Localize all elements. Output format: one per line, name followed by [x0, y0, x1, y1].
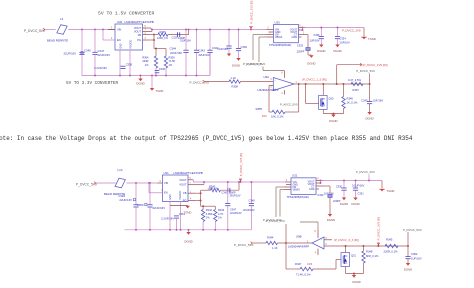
TGND cross bottom [379, 188, 384, 190]
svg-text:DGND: DGND [333, 49, 341, 53]
output cap C342 22UF/16V [209, 30, 211, 51]
wire ON tie-down [253, 34, 267, 36]
ground DGND C331 [353, 198, 357, 201]
svg-text:C330: C330 [336, 184, 343, 188]
U9B -in rail [324, 245, 345, 247]
svg-text:P_DVCC_1V5: P_DVCC_1V5 [342, 29, 361, 33]
svg-text:R306: R306 [169, 56, 176, 60]
U9B +in sense stub [324, 239, 332, 241]
svg-text:1.1K: 1.1K [231, 76, 237, 80]
U33 right pin stubs [299, 27, 306, 29]
svg-text:220R_0.1%: 220R_0.1% [384, 250, 399, 254]
capacitor C349 22UF/16V [135, 183, 137, 205]
svg-text:DGND: DGND [329, 119, 337, 123]
svg-text:(P_DVCC_1V5 [R]): (P_DVCC_1V5 [R]) [363, 63, 388, 67]
svg-text:1UF/16V: 1UF/16V [309, 39, 319, 43]
ground DGND source bottom [353, 274, 355, 276]
junction feedback [285, 242, 287, 244]
ground DGND CT [309, 55, 313, 58]
svg-text:R305: R305 [160, 30, 167, 34]
U30 PGOOD pin down [129, 50, 131, 76]
output cap C344b 22UF/16V [227, 182, 229, 204]
svg-text:P_AVCC_5V0: P_AVCC_5V0 [280, 102, 298, 106]
svg-text:DGND: DGND [136, 82, 144, 86]
VOUT merge [203, 182, 205, 185]
resistor R344 1.1K [266, 241, 277, 244]
svg-text:VIN: VIN [117, 28, 121, 32]
svg-text:TGND: TGND [368, 37, 376, 41]
junction C347 tap [94, 29, 96, 31]
drain tap junction [322, 83, 324, 85]
PG wire [149, 39, 154, 41]
U9B V+ pin 8 [317, 230, 319, 238]
resistor R346 1K vertical [342, 97, 345, 109]
svg-text:PG: PG [183, 198, 187, 202]
op-amp/regulator U30 LM4360APTCE/NOPB [115, 24, 143, 50]
ground DGND below bus [140, 76, 142, 79]
svg-text:10K_0.1%: 10K_0.1% [271, 114, 284, 118]
FB network vertical [153, 35, 155, 49]
vertical net label P_DVCC_3V3 bottom [240, 179, 242, 183]
svg-text:DGND: DGND [327, 218, 335, 222]
svg-text:DGND: DGND [232, 63, 240, 67]
svg-text:Q30: Q30 [329, 96, 334, 100]
svg-text:P_DVCC_5V0: P_DVCC_5V0 [234, 243, 254, 247]
svg-text:100R_1%: 100R_1% [157, 37, 169, 40]
svg-text:L10: L10 [118, 168, 123, 172]
capacitor C340 22UF/16V [81, 30, 83, 53]
svg-text:4.99K: 4.99K [206, 212, 213, 216]
divider row [154, 48, 166, 50]
svg-text:6K8_0.1%: 6K8_0.1% [366, 254, 379, 258]
U32 VOUT merge [320, 181, 322, 184]
capacitor C341 1000PF on FB row [220, 189, 239, 191]
svg-text:PGOOD: PGOOD [179, 190, 182, 199]
ground DGND C352 [406, 263, 410, 266]
feedback up to net label [285, 224, 287, 243]
svg-text:DGND: DGND [184, 239, 192, 243]
svg-text:TPS22965(DSGR): TPS22965(DSGR) [269, 43, 291, 47]
regulator U31 LM4360APTCE/NOPB [163, 175, 189, 202]
svg-text:1.1K: 1.1K [272, 246, 278, 250]
divider resistor R304 vertical [155, 49, 157, 57]
wire to R344 [253, 242, 267, 244]
U9A V- pin 4 [283, 90, 285, 94]
ground DGND C335 [319, 45, 323, 48]
svg-text:DGND: DGND [365, 117, 373, 121]
resistor R355 10K (DNI) [269, 111, 272, 113]
pin 1 FB stub [143, 34, 150, 36]
ground DGND C334 [335, 45, 339, 48]
svg-text:PGOOD: PGOOD [130, 39, 133, 48]
svg-text:1K_0.1%: 1K_0.1% [347, 100, 359, 104]
svg-text:R355: R355 [256, 107, 263, 111]
capacitor C352 1UF/16V [407, 246, 409, 257]
resistor R348 vertical [362, 251, 365, 263]
svg-text:DNI: DNI [308, 262, 313, 266]
svg-text:C336: C336 [241, 45, 248, 49]
wire to Q30 drain [322, 84, 324, 95]
svg-text:TPS22965(DSGR): TPS22965(DSGR) [287, 195, 309, 199]
U31 GND pin down [169, 202, 171, 230]
transistor Q30 MOSFET [319, 95, 328, 109]
svg-text:(P_DVCC_3_3 [R]): (P_DVCC_3_3 [R]) [334, 238, 359, 242]
junction C340b tap [149, 182, 151, 184]
junction C349 tap [135, 182, 137, 184]
U9A output rail [294, 83, 370, 85]
rail corner down to TGND bottom [381, 181, 383, 189]
TGND test cross [361, 36, 366, 38]
ground DGND below bottom bus [188, 230, 190, 232]
svg-text:22UF/16V: 22UF/16V [230, 211, 242, 215]
capacitor 2.2UF/16V bottom [174, 215, 179, 217]
svg-text:DGND: DGND [351, 202, 359, 206]
divider row bottom [201, 205, 216, 207]
U30 GND pin down [119, 50, 121, 76]
FB wire bottom [195, 192, 201, 194]
wire VBIAS tie-down [259, 36, 267, 38]
ground DGND source [332, 113, 334, 116]
U9B V- pin 4 [317, 249, 319, 255]
svg-text:DNI: DNI [262, 114, 267, 118]
resistor R340 100R_1% [201, 189, 211, 191]
IC U32 TPS22965 [291, 178, 316, 195]
svg-text:P_DVCC_3V3 [R]: P_DVCC_3V3 [R] [239, 153, 243, 176]
wire label to rail [369, 74, 371, 85]
svg-text:U9A: U9A [264, 75, 270, 79]
svg-text:LM2904APWRFP: LM2904APWRFP [288, 245, 309, 249]
bus corner up to C342 [209, 52, 211, 75]
svg-text:220PF: 220PF [297, 50, 305, 54]
bottom output rail P_DVCC_3V3 [192, 180, 194, 182]
ferrite bead L3 [57, 25, 67, 35]
junction C340 tap [81, 29, 83, 31]
op-amp U9A LM2904 [273, 78, 294, 91]
sense rail to divider [345, 245, 408, 247]
U9A V+ pin 8 [283, 71, 285, 78]
capacitor C338 2.2UF/16V on GND leg [121, 65, 126, 67]
svg-text:R346: R346 [347, 96, 354, 100]
capacitor C329 on FB row [168, 34, 189, 36]
svg-text:R344: R344 [267, 236, 274, 240]
ground bus top [82, 75, 211, 77]
wire EN bend to U31 [148, 183, 150, 193]
svg-text:P_DVCC_5V0: P_DVCC_5V0 [243, 62, 262, 66]
svg-text:L3: L3 [60, 17, 64, 21]
FB row to rail [188, 30, 190, 35]
svg-text:100R_1%: 100R_1% [208, 188, 220, 191]
svg-text:C350: C350 [137, 203, 144, 207]
svg-text:C341: C341 [222, 192, 229, 195]
svg-text:LM2904APWRFP: LM2904APWRFP [258, 88, 279, 92]
junction EN tap [102, 29, 104, 31]
svg-text:5V TO 3.3V CONVERTER: 5V TO 3.3V CONVERTER [66, 81, 119, 86]
divider resistor R342 [202, 206, 204, 209]
junction R348 top [363, 245, 365, 247]
svg-text:0.1UF/16V: 0.1UF/16V [352, 183, 365, 187]
ground bus bottom [124, 229, 251, 231]
U32 output rail P_DVCC_3V3 [321, 180, 383, 182]
svg-text:Q31: Q31 [351, 254, 356, 258]
svg-text:GND: GND [309, 188, 315, 191]
svg-text:1UF/16V: 1UF/16V [411, 256, 422, 260]
svg-text:2.2UF/16V: 2.2UF/16V [161, 216, 174, 220]
wire label down to rail [407, 232, 409, 246]
svg-text:VBIAS: VBIAS [275, 36, 283, 39]
rail corner down to TGND [363, 28, 365, 37]
svg-text:22UF/16V: 22UF/16V [243, 208, 255, 212]
ferrite bead L10 [115, 178, 125, 188]
svg-text:VOUT: VOUT [179, 178, 187, 182]
svg-text:C352: C352 [411, 252, 418, 256]
CT cap chain [306, 34, 309, 36]
svg-text:R307: R307 [353, 88, 360, 92]
U33 VOUT merge [302, 28, 304, 31]
svg-text:R348: R348 [366, 250, 373, 254]
U31 pin stubs [158, 182, 163, 184]
svg-text:C343: C343 [199, 48, 206, 52]
feedback to gate riser [335, 260, 337, 270]
CT cap chain bottom [323, 185, 330, 187]
svg-text:GND: GND [292, 36, 298, 39]
svg-text:P_DVCC_5V0: P_DVCC_5V0 [24, 29, 45, 33]
svg-text:U31: U31 [164, 171, 170, 175]
svg-text:R342: R342 [206, 208, 213, 212]
U32 left pin stubs [285, 181, 291, 183]
svg-text:22UF/16V: 22UF/16V [199, 53, 211, 57]
svg-text:(P_DVCC_1_5 [R]): (P_DVCC_1_5 [R]) [302, 78, 327, 82]
transistor Q31 MOSFET [341, 253, 350, 267]
svg-text:U32: U32 [292, 174, 298, 178]
svg-text:LM4360APTCE/NOPB: LM4360APTCE/NOPB [174, 171, 203, 175]
PG wire bottom [195, 200, 201, 202]
svg-text:R308: R308 [232, 85, 239, 89]
svg-text:DGND: DGND [340, 202, 348, 206]
capacitor C350 22UF/16V [149, 183, 151, 205]
FB row to rail bottom [238, 182, 240, 190]
svg-text:4.7K: 4.7K [218, 212, 224, 216]
resistor R345 on sense rail [385, 244, 398, 247]
net label branch (P_DVCC_1V5) on rail [336, 65, 338, 84]
svg-text:FB: FB [183, 191, 187, 195]
svg-text:71.4K_0.1%: 71.4K_0.1% [296, 273, 311, 277]
svg-text:U33: U33 [275, 20, 281, 24]
wire EN bend to U30 [102, 30, 104, 41]
wire R344 to output node [278, 242, 313, 244]
FB wire [149, 34, 154, 36]
wire to R308 [205, 81, 230, 83]
svg-text:1UF/16V: 1UF/16V [373, 98, 384, 102]
svg-text:1UF/16V: 1UF/16V [217, 47, 228, 51]
svg-text:C339: C339 [159, 67, 166, 71]
wire to Q30 gate [305, 84, 307, 104]
output cap C336 [238, 30, 240, 49]
svg-text:22UF/16V: 22UF/16V [98, 53, 111, 57]
svg-text:22UF/16V: 22UF/16V [153, 206, 166, 210]
wire bead to U31 VIN [127, 182, 158, 184]
output cap C343 22UF/16V [196, 30, 198, 51]
op-amp U9B LM2904 (mirrored) [312, 237, 324, 249]
U33 output rail P_DVCC_1V5 [303, 27, 365, 29]
svg-text:VOUT: VOUT [179, 183, 187, 187]
wire rail to R346 [343, 84, 345, 97]
svg-text:2.2UF/16V: 2.2UF/16V [94, 66, 107, 70]
svg-text:DGND: DGND [404, 268, 412, 272]
svg-text:P_DVCC_3V3 [R]: P_DVCC_3V3 [R] [377, 217, 381, 240]
U31 PGOOD pin down [180, 202, 182, 230]
feedback up to output rail [298, 84, 300, 112]
ground DGND for C336 [236, 58, 240, 61]
svg-text:5V TO 1.5V CONVERTER: 5V TO 1.5V CONVERTER [98, 11, 154, 17]
wire input to bead L3 [45, 29, 56, 31]
ground DGND CT bottom [328, 214, 332, 217]
svg-text:C344: C344 [170, 46, 177, 50]
pin 7 VOUT stub [143, 31, 153, 33]
svg-text:71.5K: 71.5K [169, 59, 176, 63]
svg-text:GND: GND [169, 194, 172, 200]
svg-text:C340: C340 [84, 48, 91, 52]
junction P_DVCC tap [369, 83, 371, 85]
svg-text:FB: FB [138, 33, 142, 37]
gate tap junction [305, 83, 307, 85]
wire ON tie-down bottom [276, 186, 284, 188]
wire rail to R348 [363, 246, 365, 251]
svg-text:P_DVCC_1V5 [R]: P_DVCC_1V5 [R] [249, 1, 253, 24]
vertical net label P_DVCC_3V3 red [377, 243, 379, 247]
svg-text:C333: C333 [297, 43, 304, 47]
svg-text:P_DVCC_3V3: P_DVCC_3V3 [356, 170, 375, 174]
svg-text:PG: PG [137, 38, 141, 42]
svg-text:1UF/16V: 1UF/16V [340, 40, 350, 44]
IC U33 TPS22965 [274, 25, 299, 43]
svg-text:33UF/16V: 33UF/16V [230, 194, 241, 197]
resistor R307 on rail [351, 82, 363, 85]
svg-text:U9B: U9B [296, 234, 302, 238]
pin 5 VOUT stub [143, 27, 152, 29]
svg-text:C345: C345 [361, 98, 368, 102]
svg-text:22UF/16V: 22UF/16V [170, 51, 182, 55]
svg-text:TGND: TGND [387, 189, 395, 193]
feedback loop down [285, 243, 287, 269]
FB network vertical bottom [200, 190, 202, 206]
svg-text:VIN: VIN [164, 181, 168, 185]
bus junctions [94, 75, 96, 77]
cap C334 0.1UF on 1V5 rail [337, 28, 339, 37]
capacitor C339 small [155, 70, 160, 72]
svg-text:P_DVCC_5V0: P_DVCC_5V0 [403, 228, 422, 232]
Q31 source down [345, 267, 347, 274]
cap C335 1UF/16V on 1V5 rail [320, 28, 322, 37]
svg-text:0.47_2.5%: 0.47_2.5% [348, 78, 361, 82]
svg-text:P_DVCC_5V0: P_DVCC_5V0 [76, 182, 97, 186]
svg-text:Note: In case the Voltage Drop: Note: In case the Voltage Drops at the o… [0, 135, 413, 142]
svg-text:DGND: DGND [307, 62, 315, 66]
U32 right pin stubs [316, 180, 323, 182]
svg-text:R304: R304 [142, 56, 149, 60]
resistor R347 DNI [286, 268, 300, 270]
svg-text:U30: U30 [117, 20, 123, 24]
ground TGND below bus [151, 76, 153, 89]
source rail to R346 [323, 113, 343, 115]
wire input to bead L10 [96, 182, 116, 184]
svg-text:BEAD FERRITE: BEAD FERRITE [47, 38, 68, 42]
capacitor C347 22UF/16V [94, 30, 96, 53]
svg-text:22UF/16V: 22UF/16V [64, 51, 77, 55]
svg-text:VOUT: VOUT [134, 29, 142, 33]
svg-text:GND: GND [120, 43, 123, 49]
svg-text:EN: EN [164, 191, 168, 195]
U9A -in feedback [269, 85, 273, 87]
svg-text:22UF/16V: 22UF/16V [119, 198, 132, 202]
svg-text:C334: C334 [340, 37, 347, 41]
wire VOUT merge [150, 28, 152, 30]
output rail P_DVCC_1V5 [151, 29, 267, 31]
cap C330 1UF/16V on 3V3 rail [343, 181, 345, 189]
output cap C348b 22UF/16V [250, 182, 252, 204]
svg-text:C332: C332 [317, 193, 324, 197]
output cap C337 1UF/16V [228, 30, 230, 47]
svg-text:C331: C331 [358, 192, 365, 196]
resistor R305 100R_1% [154, 34, 158, 36]
svg-text:C348: C348 [249, 199, 256, 203]
svg-text:249R: 249R [142, 59, 148, 63]
svg-text:R345: R345 [386, 238, 393, 242]
Q31 drain up [345, 246, 347, 253]
svg-text:TGND: TGND [184, 211, 192, 215]
svg-text:LM4360APTCE/NOPB: LM4360APTCE/NOPB [125, 20, 154, 24]
svg-text:TGND: TGND [156, 89, 164, 93]
junction EN tap [148, 182, 150, 184]
svg-text:C338: C338 [126, 63, 133, 67]
svg-text:DGND: DGND [317, 49, 325, 53]
svg-text:VBIAS: VBIAS [293, 188, 301, 191]
ground for C337 [227, 54, 231, 57]
wire R308 to op-amp +in [241, 81, 274, 83]
output cap C344 22UF/16V [185, 30, 187, 51]
U33 left pin stubs [267, 29, 274, 31]
svg-text:DGND: DGND [352, 280, 360, 284]
wire bead to U30 VIN [68, 29, 115, 31]
svg-text:P_DVCC_5V0: P_DVCC_5V0 [266, 219, 285, 223]
junction R346 top [343, 83, 345, 85]
svg-text:C335: C335 [313, 33, 320, 37]
pin 3 VIN stub [108, 29, 115, 31]
divider resistor R306 vertical [165, 49, 167, 57]
svg-text:220PF: 220PF [333, 199, 341, 203]
vertical net label P_DVCC_1V5 on rail [250, 26, 252, 30]
ground DGND C345 [367, 112, 371, 115]
cap C331 0.1UF on 3V3 rail [355, 181, 357, 189]
pin 4 PG stub [143, 39, 150, 41]
svg-text:EN: EN [117, 38, 121, 42]
ground TGND near U31 [170, 205, 188, 207]
divider resistor R343 [214, 206, 216, 209]
source rail bottom [346, 273, 364, 275]
ground DGND C330 [342, 198, 346, 201]
capacitor C345 1UF/16V [369, 84, 371, 102]
wire VBIAS tie-down bottom [280, 189, 284, 191]
Q30 source down [322, 109, 324, 113]
svg-text:R343: R343 [218, 208, 225, 212]
resistor R308 1.1K [229, 80, 241, 83]
svg-text:P_DVCC_5V0: P_DVCC_5V0 [356, 69, 375, 73]
svg-text:R347: R347 [295, 262, 302, 266]
